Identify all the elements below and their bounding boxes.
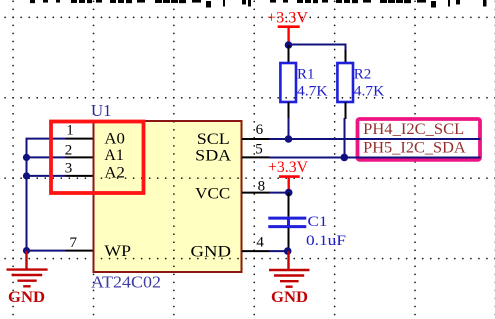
wire: SDA net xyxy=(269,157,481,159)
svg-text:R1: R1 xyxy=(297,67,315,83)
svg-text:4.7K: 4.7K xyxy=(297,84,328,100)
svg-text:A1: A1 xyxy=(104,147,124,164)
junction at pin 3 xyxy=(23,172,30,179)
svg-text:2: 2 xyxy=(65,143,73,159)
ground symbol left xyxy=(7,251,48,287)
svg-text:PH5_I2C_SDA: PH5_I2C_SDA xyxy=(363,140,466,157)
svg-text:+3.3V: +3.3V xyxy=(267,9,308,26)
wire: R1 to SCL net xyxy=(288,118,290,139)
junction at pin 2 xyxy=(23,154,30,161)
wire: +3.3V rail to R2 xyxy=(289,45,346,52)
junction at pin 7 xyxy=(23,247,30,254)
junction R2/SDA xyxy=(341,154,349,162)
svg-text:GND: GND xyxy=(191,244,232,261)
top clipped text row xyxy=(30,0,487,8)
svg-text:7: 7 xyxy=(70,235,78,251)
pin 3 xyxy=(66,175,93,177)
svg-text:3: 3 xyxy=(65,161,73,177)
svg-text:AT24C02: AT24C02 xyxy=(91,273,161,292)
resistor R2 xyxy=(337,50,384,119)
wire: R2 to SDA net xyxy=(344,118,346,157)
power +3.3V top: stem xyxy=(287,27,289,45)
svg-text:A2: A2 xyxy=(104,165,125,182)
svg-text:GND: GND xyxy=(271,289,308,306)
pin 6 xyxy=(242,138,270,140)
net label callout box xyxy=(358,119,481,160)
svg-text:6: 6 xyxy=(256,122,264,138)
pin 4 xyxy=(242,250,270,252)
svg-text:A0: A0 xyxy=(104,131,125,148)
svg-text:1: 1 xyxy=(66,122,74,138)
wire: pin 8 to +3.3V xyxy=(269,192,289,194)
svg-text:SDA: SDA xyxy=(195,147,231,164)
svg-text:C1: C1 xyxy=(308,214,328,230)
svg-text:WP: WP xyxy=(104,243,131,260)
wire: pin 4 to C1 xyxy=(269,250,287,252)
svg-text:5: 5 xyxy=(255,142,263,158)
svg-text:8: 8 xyxy=(258,179,266,195)
pin 5 xyxy=(242,156,270,158)
pin 8 xyxy=(242,192,270,194)
wire: to pin 1 xyxy=(26,138,66,140)
svg-text:GND: GND xyxy=(8,289,45,306)
red highlight box over A0-A2 xyxy=(51,122,144,194)
junction pin4/C1/GND xyxy=(284,247,292,255)
wire: left vertical bus xyxy=(26,139,28,251)
wire: to pin 7 xyxy=(26,250,66,252)
capacitor C1 xyxy=(268,193,346,251)
svg-text:4.7K: 4.7K xyxy=(354,84,385,100)
wire: SCL net xyxy=(269,138,481,140)
power +3.3V mid: bar symbol xyxy=(279,175,300,178)
pin 7 xyxy=(66,250,93,252)
ground symbol right xyxy=(269,251,310,287)
pin 2 xyxy=(66,156,93,158)
svg-text:VCC: VCC xyxy=(195,186,230,203)
junction R1/SCL xyxy=(285,135,293,143)
svg-text:U1: U1 xyxy=(91,101,112,120)
wire: to pin 3 xyxy=(26,175,66,177)
svg-text:4: 4 xyxy=(256,234,264,250)
pin 1 xyxy=(66,138,93,140)
svg-text:+3.3V: +3.3V xyxy=(268,159,308,176)
power +3.3V top: bar symbol xyxy=(278,25,300,28)
svg-text:PH4_I2C_SCL: PH4_I2C_SCL xyxy=(363,121,464,138)
IC U1 body xyxy=(94,121,242,272)
svg-text:R2: R2 xyxy=(354,67,372,83)
junction at +3.3V rail xyxy=(285,41,293,49)
wire: to pin 2 xyxy=(26,156,66,158)
junction VCC xyxy=(285,189,293,197)
power +3.3V mid: stem xyxy=(288,177,290,193)
svg-text:0.1uF: 0.1uF xyxy=(306,233,346,249)
resistor R1 xyxy=(280,45,327,119)
svg-text:SCL: SCL xyxy=(197,131,230,148)
